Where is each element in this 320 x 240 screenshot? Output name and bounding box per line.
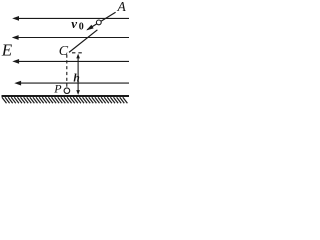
velocity ray from A through particle: [87, 12, 115, 30]
field line 1 (top, arrow left): [12, 16, 129, 21]
svg-text:0: 0: [79, 22, 84, 33]
svg-text:h: h: [73, 72, 79, 84]
svg-text:P: P: [53, 81, 62, 95]
velocity arrowhead v0: [86, 25, 93, 31]
svg-text:E: E: [1, 41, 13, 60]
field line 2 (arrow left): [12, 35, 129, 40]
landing point circle P: [64, 88, 70, 94]
h dimension arrow (double-headed): [76, 54, 80, 95]
trajectory line to C: [69, 30, 97, 53]
ground line: [2, 95, 130, 97]
dashed horizontal at C level: [72, 52, 83, 54]
particle circle at A: [96, 20, 101, 25]
field line 3 (arrow left): [12, 59, 129, 64]
field line 4 (arrow left): [14, 81, 129, 86]
svg-text:A: A: [117, 0, 127, 14]
dashed vertical C to P: [66, 55, 68, 88]
svg-text:v: v: [71, 16, 77, 31]
ground hatching: [2, 97, 128, 103]
